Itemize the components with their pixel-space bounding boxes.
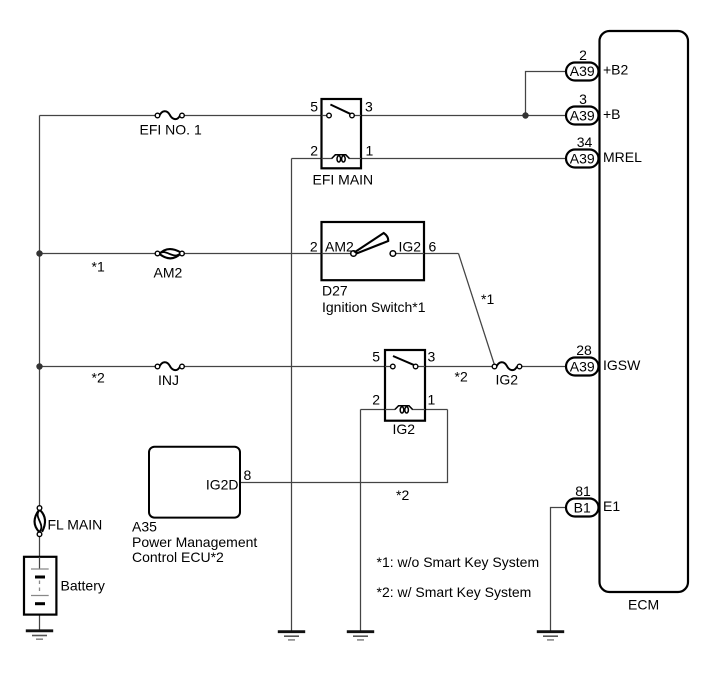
wire IG2 relay ground vertical (360, 410, 362, 632)
wire diagonal from pin 6 to IG2 fuse (459, 254, 495, 366)
ground E1 (537, 632, 564, 640)
ignition switch key lever (355, 233, 388, 253)
svg-text:ECM: ECM (628, 597, 659, 613)
svg-text:Power Management: Power Management (132, 534, 257, 550)
ECU A35 box (132, 447, 257, 565)
svg-text:1: 1 (366, 143, 374, 159)
svg-text:EFI MAIN: EFI MAIN (313, 172, 374, 188)
EFI MAIN switch blade and contacts (330, 105, 352, 115)
svg-text:5: 5 (372, 349, 380, 365)
wire EFI MAIN coil pin 1 to MREL (348, 158, 566, 160)
svg-text:1: 1 (428, 392, 436, 408)
svg-text:3: 3 (365, 99, 373, 115)
svg-text:IG2: IG2 (393, 421, 416, 437)
fusible link FL MAIN (35, 506, 103, 537)
fusible link AM2 (154, 249, 185, 280)
wire IG2 relay coil pin 1 right (413, 409, 448, 411)
ignition switch D27 (310, 222, 437, 315)
svg-text:*1: *1 (92, 259, 105, 275)
EFI MAIN relay coil (332, 155, 350, 159)
svg-text:A39: A39 (570, 358, 595, 374)
svg-text:5: 5 (310, 99, 318, 115)
svg-text:81: 81 (575, 483, 591, 499)
svg-text:*2: *2 (92, 370, 105, 386)
fuse IG2 (492, 362, 522, 387)
svg-text:3: 3 (428, 349, 436, 365)
svg-text:EFI NO. 1: EFI NO. 1 (140, 122, 202, 138)
svg-text:*1: *1 (481, 291, 494, 307)
svg-text:Control ECU*2: Control ECU*2 (132, 549, 224, 565)
svg-text:MREL: MREL (603, 149, 642, 165)
wire IG2 relay pin 3 to IG2 fuse (416, 366, 495, 368)
wire IG2 fuse to IGSW (520, 366, 567, 368)
svg-text:IG2: IG2 (496, 372, 519, 388)
wire battery top (39, 557, 41, 569)
wire EFI MAIN ground vertical (291, 159, 293, 632)
wire EFI NO.1 line left segment (40, 115, 158, 117)
wire AM2 line left segment (40, 253, 158, 255)
svg-text:+B: +B (603, 106, 621, 122)
svg-text:D27: D27 (322, 283, 348, 299)
wire battery bottom to ground (39, 604, 41, 631)
relay EFI MAIN (310, 99, 373, 188)
ground EFI MAIN coil (278, 632, 305, 640)
fuse INJ (155, 362, 184, 388)
svg-text:34: 34 (577, 134, 593, 150)
svg-text:8: 8 (244, 467, 252, 483)
svg-text:3: 3 (579, 91, 587, 107)
svg-text:INJ: INJ (158, 372, 179, 388)
svg-text:FL MAIN: FL MAIN (48, 517, 103, 533)
wire B1 E1 to ground (551, 508, 567, 632)
IG2 relay coil (395, 406, 413, 410)
svg-text:IGSW: IGSW (603, 357, 641, 373)
wire EFI MAIN pin 3 to +B with branch (352, 115, 566, 117)
ground IG2 relay coil (347, 632, 374, 640)
IG2 switch blade and contacts (393, 356, 416, 366)
svg-text:+B2: +B2 (603, 62, 629, 78)
wire IG2 pin1 down to IG2D (240, 410, 448, 483)
battery (24, 557, 105, 615)
svg-text:A35: A35 (132, 519, 157, 535)
svg-text:2: 2 (579, 47, 587, 63)
svg-text:E1: E1 (603, 498, 620, 514)
svg-text:A39: A39 (570, 63, 595, 79)
ignition switch contacts (351, 251, 357, 257)
wire INJ line right segment to IG2 relay pin 5 (182, 366, 393, 368)
ECM U1 box (600, 31, 689, 613)
svg-text:Ignition Switch*1: Ignition Switch*1 (322, 299, 426, 315)
connector A39 pin 34 MREL (566, 134, 642, 168)
wire EFI NO.1 line right segment to EFI MAIN relay pin 5 (182, 115, 329, 117)
svg-text:Battery: Battery (61, 578, 105, 594)
wire IG2 relay coil pin 2 to ground corner (361, 409, 395, 411)
fuse EFI NO. 1 (140, 111, 202, 137)
svg-text:AM2: AM2 (154, 265, 183, 281)
junction dot at INJ line (36, 363, 42, 369)
svg-text:2: 2 (310, 239, 318, 255)
ground below battery (26, 631, 53, 639)
svg-text:6: 6 (429, 239, 437, 255)
svg-text:IG2D: IG2D (206, 477, 239, 493)
svg-text:2: 2 (372, 392, 380, 408)
svg-text:A39: A39 (570, 150, 595, 166)
connector A39 pin 2 +B2 (566, 47, 629, 81)
relay IG2 (372, 349, 435, 438)
svg-text:B1: B1 (574, 499, 591, 515)
svg-text:*1: w/o Smart Key System: *1: w/o Smart Key System (377, 554, 540, 570)
svg-text:IG2: IG2 (399, 239, 422, 255)
wire ignition switch IG2 pin 6 horizontal (393, 253, 459, 255)
svg-text:28: 28 (576, 342, 592, 358)
connector A39 pin 3 +B (566, 91, 621, 125)
junction dot at AM2 line (36, 250, 42, 256)
wire left bus vertical from EFI NO.1 down to FL MAIN (39, 116, 41, 509)
wire EFI MAIN coil pin 2 to ground corner (292, 158, 332, 160)
svg-text:2: 2 (310, 143, 318, 159)
connector B1 pin 81 E1 (566, 483, 620, 517)
wire branch up to +B2 (526, 72, 567, 116)
svg-text:*2: *2 (455, 369, 468, 385)
connector A39 pin 28 IGSW (566, 342, 641, 376)
svg-text:*2: w/ Smart Key System: *2: w/ Smart Key System (377, 584, 532, 600)
svg-text:A39: A39 (570, 107, 595, 123)
wire AM2 line right segment to ignition switch AM2 contact (182, 253, 354, 255)
wire FL MAIN to battery (39, 534, 41, 557)
svg-text:AM2: AM2 (325, 239, 354, 255)
svg-text:*2: *2 (396, 487, 409, 503)
wire INJ line left segment (40, 366, 158, 368)
junction dot at +B branch (522, 112, 528, 118)
